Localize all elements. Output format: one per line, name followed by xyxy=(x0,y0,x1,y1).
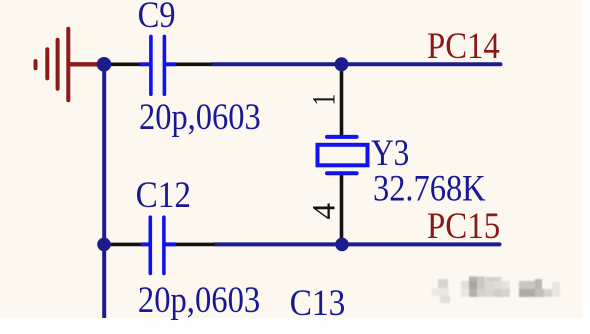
svg-text:20p,0603: 20p,0603 xyxy=(138,280,260,321)
svg-text:4: 4 xyxy=(307,203,343,220)
svg-text:PC15: PC15 xyxy=(427,206,500,247)
svg-text:1: 1 xyxy=(306,94,343,106)
svg-text:C9: C9 xyxy=(138,0,176,36)
svg-text:PC14: PC14 xyxy=(427,26,500,67)
svg-text:C13: C13 xyxy=(290,283,346,324)
svg-text:C12: C12 xyxy=(136,175,191,216)
svg-text:32.768K: 32.768K xyxy=(373,168,486,209)
svg-text:20p,0603: 20p,0603 xyxy=(139,97,261,138)
